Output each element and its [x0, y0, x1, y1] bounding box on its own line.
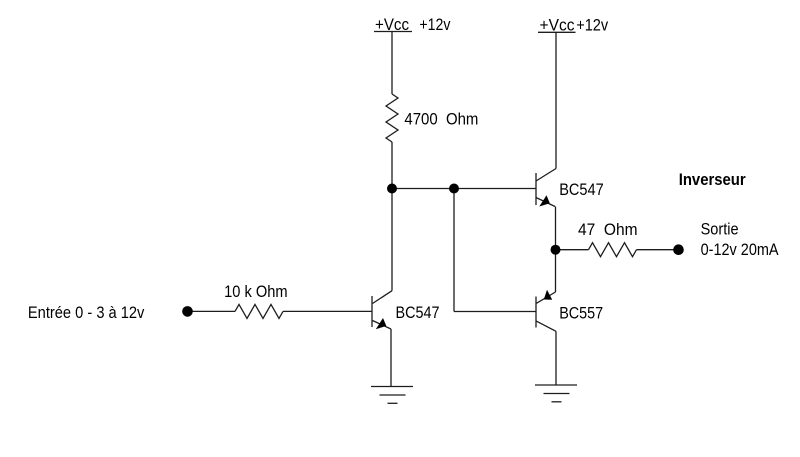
wire node C to Q3 emitter — [555, 250, 557, 292]
wire Vcc2 to Q2 collector — [555, 33, 557, 169]
svg-text:47 Ohm: 47 Ohm — [578, 220, 638, 239]
resistor R1 10 k Ohm — [235, 304, 283, 318]
node C junction dot — [551, 245, 561, 255]
wire Q1 emitter to ground — [390, 329, 392, 387]
wire Q3 collector to ground — [555, 331, 557, 385]
svg-text:BC557: BC557 — [559, 304, 603, 323]
terminal input dot wire — [188, 310, 236, 312]
terminal input dot — [182, 306, 193, 317]
svg-text:Inverseur: Inverseur — [679, 170, 746, 189]
resistor R2 4700 Ohm — [386, 94, 398, 142]
transistor Q2 BC547 — [536, 169, 556, 207]
wire node B to Q3 base — [454, 311, 536, 313]
svg-text:10 k Ohm: 10 k Ohm — [224, 282, 288, 301]
power +Vcc supply 1 bar — [374, 31, 412, 33]
svg-text:BC547: BC547 — [396, 303, 440, 322]
wire R3 to output terminal — [637, 249, 679, 251]
wire Q2 emitter to node C — [555, 207, 557, 250]
wire node C to R3 — [556, 249, 589, 251]
wire Q1 base — [283, 310, 372, 312]
svg-text:0-12v 20mA: 0-12v 20mA — [701, 240, 780, 259]
resistor R3 47 Ohm — [589, 243, 637, 257]
transistor Q1 BC547 — [372, 291, 392, 330]
transistor Q3 BC557 — [536, 290, 556, 332]
terminal output dot — [673, 244, 684, 255]
ground G2 — [535, 385, 577, 402]
node A junction dot — [387, 184, 397, 194]
wire Vcc1 to R2 — [391, 32, 393, 94]
svg-text:Entrée 0 - 3 à 12v: Entrée 0 - 3 à 12v — [28, 303, 145, 322]
svg-text:+Vcc: +Vcc — [375, 15, 409, 34]
ground G1 — [371, 387, 413, 404]
power +Vcc supply 2 bar — [538, 31, 576, 33]
svg-text:+12v: +12v — [576, 16, 608, 35]
node B junction dot — [449, 184, 459, 194]
wire node bus A to Q2 base — [392, 188, 536, 190]
wire node A to Q1 collector — [391, 189, 393, 291]
svg-text:BC547: BC547 — [559, 180, 604, 199]
svg-text:+12v: +12v — [419, 15, 450, 34]
svg-text:+Vcc: +Vcc — [540, 16, 575, 35]
svg-text:Sortie: Sortie — [701, 219, 739, 238]
wire R2 to node A — [391, 142, 393, 189]
svg-text:4700 Ohm: 4700 Ohm — [404, 109, 478, 128]
wire node B down — [453, 189, 455, 312]
